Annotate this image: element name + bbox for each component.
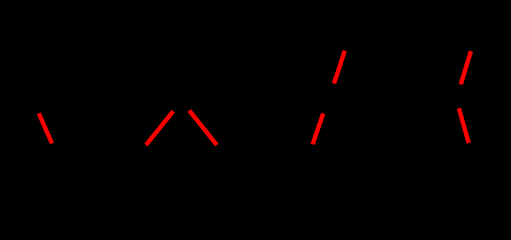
bond highlight 1 (left, down-right slant): [39, 113, 52, 143]
bond highlight 4 (mid chain upper): [334, 51, 345, 84]
bond highlight 3 (apex right side, down-right slant): [189, 111, 217, 146]
bond highlight 7 (right vertex lower): [459, 108, 469, 143]
bond highlight 6 (right vertex upper): [461, 51, 471, 84]
bond highlight 5 (mid chain lower): [313, 114, 324, 145]
bond highlight 2 (apex left side, up-right slant): [146, 111, 173, 145]
